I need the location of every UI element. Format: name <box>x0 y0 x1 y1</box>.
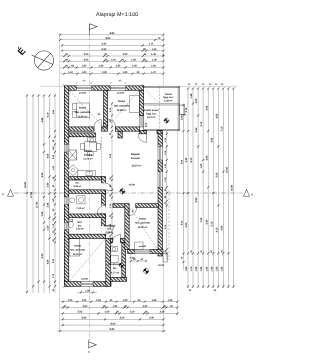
svg-text:1.40: 1.40 <box>210 266 213 271</box>
svg-text:Szoba: Szoba <box>118 100 126 103</box>
svg-text:1.48: 1.48 <box>190 93 193 98</box>
svg-text:±0.00: ±0.00 <box>129 183 136 186</box>
svg-text:4.10: 4.10 <box>215 227 218 232</box>
svg-text:Szoba: Szoba <box>74 245 82 248</box>
svg-text:8.90: 8.90 <box>195 197 198 202</box>
dimension chain bottom row 2 <box>60 307 178 309</box>
wall bottom window gap <box>81 281 93 287</box>
room label etkezo <box>83 149 93 161</box>
svg-text:1.50: 1.50 <box>105 311 110 314</box>
kitchen counter <box>78 171 96 177</box>
window W2 room2 top <box>111 86 126 91</box>
svg-text:4.10: 4.10 <box>47 112 50 117</box>
svg-text:1.10: 1.10 <box>68 71 73 74</box>
svg-text:1.50: 1.50 <box>113 305 118 308</box>
svg-text:7.00: 7.00 <box>200 217 203 222</box>
svg-text:lam. parketta: lam. parketta <box>114 105 130 108</box>
dimension chain bottom row 4 <box>60 318 164 320</box>
svg-text:1.55: 1.55 <box>152 299 157 302</box>
svg-text:konyha: konyha <box>84 154 93 157</box>
level text entry <box>158 264 165 267</box>
corner tick bottom-left <box>63 285 66 288</box>
room label utility <box>76 207 84 210</box>
svg-text:1.65: 1.65 <box>151 65 156 68</box>
room label nappali <box>131 153 140 160</box>
room label wing szoba <box>135 218 150 229</box>
window W6 living right <box>158 146 163 160</box>
wing bottom window gap <box>135 249 151 254</box>
svg-text:2.50: 2.50 <box>160 311 165 314</box>
svg-text:1.20: 1.20 <box>116 65 121 68</box>
window label W2 <box>117 91 125 94</box>
svg-text:lam.: lam. <box>107 228 112 231</box>
svg-text:1.85: 1.85 <box>200 266 203 271</box>
window label W1 <box>79 91 87 94</box>
partition P10 bathroom left <box>106 238 111 286</box>
window W1 room1 top <box>77 86 92 91</box>
dimension chain left col 5 <box>48 94 50 293</box>
svg-text:5,38 m²: 5,38 m² <box>164 100 172 103</box>
dimension chain right col 6 <box>212 87 214 288</box>
dimension chain bottom row 1 <box>60 301 178 303</box>
svg-text:12,60 m²: 12,60 m² <box>77 115 87 118</box>
partition P1c below room2 <box>116 127 140 131</box>
partition P5 above kamra <box>69 177 102 181</box>
window W4 utility left <box>64 197 69 205</box>
window W10 room2 to terrace <box>139 116 143 128</box>
window label W8 <box>139 245 147 248</box>
svg-text:11,76 m²: 11,76 m² <box>83 158 93 161</box>
svg-text:8.60: 8.60 <box>106 37 111 40</box>
dimension chain bottom row 3 <box>60 312 178 314</box>
svg-text:1.45: 1.45 <box>151 53 156 56</box>
svg-text:konyha: konyha <box>131 157 140 160</box>
svg-text:ker.: ker. <box>78 224 82 227</box>
wall left window gap 3 <box>64 223 69 230</box>
dimension chain left col 1 <box>26 94 28 293</box>
svg-text:17.36: 17.36 <box>36 201 39 208</box>
svg-text:12,36 m²: 12,36 m² <box>73 253 83 256</box>
svg-text:3.00: 3.00 <box>83 305 88 308</box>
partition P14 living-corridor <box>113 204 125 208</box>
level mark terrace <box>163 117 170 124</box>
svg-text:lam. parketta: lam. parketta <box>70 249 85 252</box>
svg-text:1.80: 1.80 <box>215 266 218 271</box>
svg-text:1.40: 1.40 <box>152 48 157 51</box>
right chains top labels <box>188 83 224 86</box>
right chains bottom labels <box>189 289 217 292</box>
svg-text:1.10: 1.10 <box>111 58 116 61</box>
svg-text:2.30: 2.30 <box>41 211 44 216</box>
wall exterior wing bottom <box>128 250 163 254</box>
utility washer <box>77 196 85 204</box>
terrace roof dashed <box>159 87 161 131</box>
corner tick top-right <box>142 84 145 87</box>
partition P8 below wc <box>69 234 106 238</box>
svg-text:2.00: 2.00 <box>149 317 154 320</box>
section line b-b vertical <box>88 24 97 354</box>
svg-text:ker.: ker. <box>76 182 80 185</box>
chimney <box>69 150 77 160</box>
hall door width label 1 <box>98 113 101 116</box>
extension line top-left horizontal <box>40 85 64 87</box>
svg-text:1.20: 1.20 <box>82 299 87 302</box>
svg-text:33,07 m²: 33,07 m² <box>132 164 142 167</box>
level mark entry <box>142 267 149 274</box>
svg-text:5.20: 5.20 <box>185 222 188 227</box>
door utility <box>97 205 105 213</box>
svg-text:1.40: 1.40 <box>131 58 136 61</box>
svg-text:4.88: 4.88 <box>41 117 44 122</box>
wall top window gap 2 <box>111 85 126 90</box>
terrace outline <box>144 86 180 131</box>
dimension chain entry small <box>130 260 147 262</box>
wing step right <box>163 254 167 263</box>
dimension chain right col 1 <box>187 87 189 288</box>
dimension chain bottom window row <box>77 291 97 293</box>
wall right window gap 1 <box>158 146 163 160</box>
corner tick top-left <box>63 84 66 87</box>
svg-text:10,66 m²: 10,66 m² <box>116 109 126 112</box>
svg-text:6.10: 6.10 <box>200 121 203 126</box>
wall top window gap 1 <box>77 85 92 90</box>
svg-text:1.50: 1.50 <box>123 299 128 302</box>
wall exterior top <box>69 86 144 91</box>
svg-text:2.30: 2.30 <box>102 71 107 74</box>
svg-text:5.65: 5.65 <box>205 219 208 224</box>
svg-text:9.10: 9.10 <box>190 157 193 162</box>
P4 door gap utility <box>101 205 106 213</box>
partition P9a bathroom top stub left <box>110 238 112 242</box>
room1 diagonal <box>70 91 103 126</box>
door room2 <box>108 119 116 131</box>
svg-text:Étkező: Étkező <box>84 149 92 153</box>
dimension chain outer right short <box>182 104 184 271</box>
svg-text:2.40: 2.40 <box>47 182 50 187</box>
partition P2 between rooms 1-2 <box>104 90 108 127</box>
partition P9b bathroom top stub right <box>121 238 130 242</box>
window label W9 <box>81 278 88 281</box>
svg-text:3.00: 3.00 <box>123 53 128 56</box>
svg-text:1.20: 1.20 <box>168 299 173 302</box>
svg-text:4,30 m²: 4,30 m² <box>76 228 84 231</box>
window W7 living right <box>158 172 163 188</box>
north compass <box>15 45 53 70</box>
svg-text:1.80: 1.80 <box>195 266 198 271</box>
svg-text:7,20 m²: 7,20 m² <box>76 207 84 210</box>
svg-text:4,77 m²: 4,77 m² <box>111 271 119 274</box>
svg-text:1.70: 1.70 <box>149 43 154 46</box>
svg-text:Kamra: Kamra <box>74 179 82 182</box>
wall left window gap 2 <box>64 197 69 205</box>
P4 door gap wc <box>101 226 106 234</box>
svg-text:Közlekedő: Közlekedő <box>104 225 116 228</box>
svg-text:1.50: 1.50 <box>132 65 137 68</box>
extension line entry vertical <box>130 254 132 303</box>
svg-text:-0.15: -0.15 <box>180 114 186 117</box>
svg-text:5.20: 5.20 <box>41 253 44 258</box>
door room1 <box>94 120 101 132</box>
svg-text:4.80: 4.80 <box>47 259 50 264</box>
partition P7 above wc <box>69 214 106 218</box>
svg-text:1.00: 1.00 <box>200 163 203 168</box>
room label nappali area <box>132 164 142 167</box>
wall exterior bottom bathroom <box>108 277 127 281</box>
dimension chain left col 3 <box>37 94 39 293</box>
dimension chain top row 1 <box>59 34 164 36</box>
partition P1b hall node <box>102 127 108 131</box>
svg-text:pvd.90: pvd.90 <box>117 91 125 94</box>
lintel labels above top wall <box>83 80 122 83</box>
svg-text:4,95 m²: 4,95 m² <box>106 231 114 234</box>
terrace step right <box>180 105 185 115</box>
svg-text:pvd.90: pvd.90 <box>79 91 87 94</box>
room label fedett terasz <box>144 109 160 119</box>
partition P1a below room1 <box>69 127 94 131</box>
door wing <box>128 207 137 216</box>
window W3 kitchen left <box>64 144 69 152</box>
door kitchen <box>90 137 96 143</box>
svg-text:19.80: 19.80 <box>24 181 27 188</box>
svg-text:3.00: 3.00 <box>120 317 125 320</box>
svg-text:1.55: 1.55 <box>99 65 104 68</box>
window W8 wing bottom <box>135 250 151 254</box>
dimension chain right col 10 <box>232 87 234 288</box>
dimension chain inner right <box>166 131 168 260</box>
dimension chain right col 4 <box>202 87 204 288</box>
furniture bottom szoba wardrobe <box>69 239 80 256</box>
extension line right vertical lower <box>162 256 164 332</box>
svg-text:b: b <box>88 350 90 354</box>
svg-text:1.70: 1.70 <box>151 71 156 74</box>
partition stub hall <box>118 131 122 138</box>
terrace dashed diagonal <box>146 91 159 104</box>
svg-text:W.C.: W.C. <box>78 221 83 224</box>
wall exterior right upper <box>139 90 143 115</box>
room2 diagonal <box>108 91 139 126</box>
wing diagonal <box>130 208 157 249</box>
extension line right vertical upper <box>162 34 164 87</box>
right chains 30 labels at wing wall <box>190 250 223 253</box>
wall left window gap 1 <box>64 144 69 152</box>
wall exterior bottom west <box>64 282 111 287</box>
wall wing left <box>125 204 129 250</box>
dimension chain top row 2 <box>59 39 164 41</box>
dimension chain top row 8 <box>60 73 164 75</box>
svg-text:±0.00: ±0.00 <box>158 264 165 267</box>
svg-text:1.20: 1.20 <box>82 65 87 68</box>
extension line terrace right <box>177 131 179 316</box>
furniture dining table <box>81 138 101 156</box>
dimension chain top row 6 <box>60 60 164 62</box>
room label wc <box>76 221 84 230</box>
partition P4 corridor left <box>102 177 106 239</box>
section line a-a horizontal <box>2 189 253 196</box>
svg-text:8.80: 8.80 <box>110 328 115 331</box>
svg-text:16.98: 16.98 <box>231 184 234 191</box>
P4 door gap kamra <box>101 183 106 190</box>
svg-text:1.20: 1.20 <box>123 71 128 74</box>
level mark living <box>119 188 126 195</box>
svg-text:4.50: 4.50 <box>41 172 44 177</box>
svg-text:3.00: 3.00 <box>84 53 89 56</box>
room label terasz <box>163 93 174 103</box>
dimension chain right col 8 <box>222 87 224 288</box>
dimension chain right col 9 <box>227 87 229 288</box>
svg-text:lam. parketta: lam. parketta <box>135 222 150 225</box>
svg-text:Fürdőszoba: Fürdőszoba <box>108 263 122 266</box>
window W9 bottom szoba <box>81 282 93 287</box>
svg-text:4.80: 4.80 <box>205 155 208 160</box>
wall exterior NE band right part <box>157 130 163 134</box>
dimension chain top row 4 <box>61 50 165 52</box>
dimension chain right col 7 <box>217 87 219 288</box>
svg-text:-0.02: -0.02 <box>129 257 135 260</box>
dimension chain top row 5 <box>60 55 164 57</box>
room label kamra <box>74 179 82 188</box>
dimension chain right col 2 <box>192 87 194 288</box>
door living-corridor opening ticks <box>106 204 114 208</box>
bathroom fixtures <box>111 246 118 262</box>
svg-text:1.50: 1.50 <box>85 290 90 293</box>
svg-text:a: a <box>251 193 253 197</box>
wall exterior living right <box>158 134 163 256</box>
svg-text:5.05: 5.05 <box>215 172 218 177</box>
dimension chain bottom row 5 <box>60 324 164 326</box>
svg-text:7.10: 7.10 <box>220 126 223 131</box>
wall exterior left <box>64 86 69 286</box>
dimension chain bottom row 6 <box>57 330 166 332</box>
svg-text:1.80: 1.80 <box>205 266 208 271</box>
utility washbasin <box>69 198 75 203</box>
room label kozlekedo <box>104 225 116 234</box>
wall right window gap 2 <box>158 172 163 188</box>
svg-text:1.80: 1.80 <box>185 266 188 271</box>
svg-text:pv.150: pv.150 <box>81 278 88 281</box>
eaves dashed line right <box>168 190 170 260</box>
svg-text:16.90: 16.90 <box>226 166 229 173</box>
extension line left vertical <box>59 34 61 333</box>
dimension chain right col 3 <box>197 87 199 288</box>
kitchen corner sink diamond <box>67 165 78 176</box>
svg-text:2.30: 2.30 <box>195 98 198 103</box>
room label bottom szoba <box>70 245 85 256</box>
open-plan dashed boundary kitchen-living <box>100 137 102 177</box>
level mark bathroom <box>118 262 125 269</box>
svg-text:3.60: 3.60 <box>82 317 87 320</box>
svg-text:17.86: 17.86 <box>30 191 33 198</box>
svg-text:3,02 m²: 3,02 m² <box>74 185 82 188</box>
svg-text:Szoba: Szoba <box>79 107 87 110</box>
svg-text:3.00: 3.00 <box>143 305 148 308</box>
wc toilet <box>68 221 73 228</box>
furniture room1 bed <box>73 103 90 117</box>
door wc <box>106 226 114 234</box>
svg-text:5.30: 5.30 <box>185 157 188 162</box>
svg-text:8.80: 8.80 <box>110 32 115 35</box>
hall door width label 2 <box>103 122 106 125</box>
svg-text:1.20: 1.20 <box>82 71 87 74</box>
svg-text:pvd.90: pvd.90 <box>139 245 147 248</box>
room label furdoszoba <box>108 263 122 274</box>
svg-text:8.95: 8.95 <box>210 137 213 142</box>
svg-text:4.95: 4.95 <box>215 113 218 118</box>
dimension chain right col 5 <box>207 87 209 288</box>
partition P11 bathroom right <box>122 243 126 278</box>
level text terrace <box>180 114 186 117</box>
extension line top-right horizontal <box>180 85 237 87</box>
svg-text:Alaprajz M=1:100: Alaprajz M=1:100 <box>96 12 138 18</box>
wing furniture rect <box>135 242 143 249</box>
svg-text:1.25: 1.25 <box>96 299 101 302</box>
svg-text:Nappali: Nappali <box>131 153 140 156</box>
terrace 30-30 dims <box>145 123 148 128</box>
bottom szoba diagonal <box>70 239 106 281</box>
dimension chain interior corridor <box>111 102 113 246</box>
svg-text:4.72: 4.72 <box>185 107 188 112</box>
dimension chain top row 3 <box>61 44 165 46</box>
svg-text:6.90: 6.90 <box>102 48 107 51</box>
svg-text:3.00: 3.00 <box>84 58 89 61</box>
door bathroom <box>113 235 121 243</box>
furniture room2 wardrobe <box>130 96 140 113</box>
door kamra <box>106 183 113 190</box>
partition P6 below kamra <box>69 190 106 194</box>
dimension chain left col 2 <box>32 94 34 293</box>
svg-text:a: a <box>2 192 4 196</box>
svg-text:4.00: 4.00 <box>47 153 50 158</box>
partition P3 kitchen top <box>69 133 96 137</box>
svg-text:1.80: 1.80 <box>220 266 223 271</box>
level text entry sill <box>129 257 135 260</box>
svg-text:ker.: ker. <box>113 267 117 270</box>
svg-text:1.10: 1.10 <box>190 266 193 271</box>
svg-text:2.45: 2.45 <box>47 202 50 207</box>
svg-text:6.90: 6.90 <box>102 43 107 46</box>
dimension chain top row 7 <box>60 66 164 68</box>
partition P12 wing top <box>136 204 159 208</box>
svg-text:2.10: 2.10 <box>130 311 135 314</box>
svg-text:1.50: 1.50 <box>47 225 50 230</box>
svg-text:Szoba: Szoba <box>139 218 147 221</box>
door D2 living-terrace <box>138 131 157 143</box>
svg-text:9.80: 9.80 <box>220 225 223 230</box>
window W5 wc left <box>64 223 69 230</box>
room label szoba 2 <box>114 100 130 112</box>
svg-text:3.02: 3.02 <box>78 311 83 314</box>
level text living <box>129 183 136 186</box>
svg-text:12,30 m²: 12,30 m² <box>138 226 148 229</box>
wall exterior NE band left part <box>139 130 146 134</box>
svg-text:8.50: 8.50 <box>111 322 116 325</box>
dimension chain left col 4 <box>43 94 45 293</box>
svg-text:lam. parketta: lam. parketta <box>75 111 91 114</box>
svg-text:6,07 m²: 6,07 m² <box>147 116 155 119</box>
svg-text:1.20: 1.20 <box>68 299 73 302</box>
svg-text:5.15: 5.15 <box>210 221 213 226</box>
svg-text:2.62: 2.62 <box>195 127 198 132</box>
dimension chain left col 6 <box>54 94 56 293</box>
room label szoba 1 <box>75 107 91 119</box>
svg-text:3.62: 3.62 <box>205 105 208 110</box>
svg-text:1.40: 1.40 <box>152 58 157 61</box>
